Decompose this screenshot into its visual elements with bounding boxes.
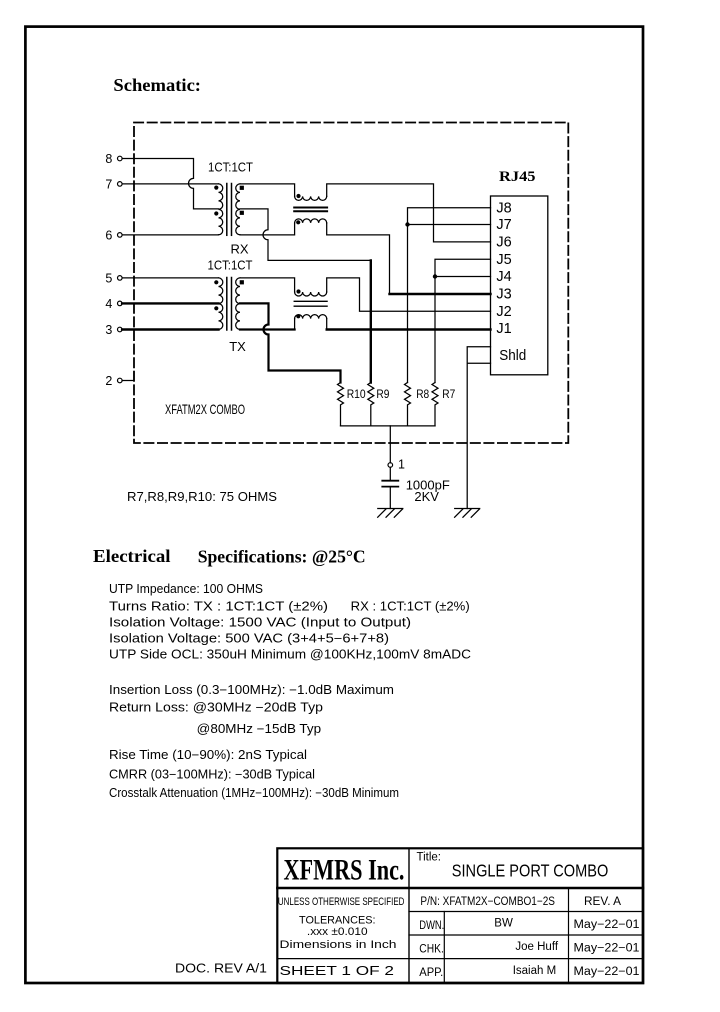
ground symbol (capacitor) (378, 509, 403, 518)
svg-text:@80MHz −15dB Typ: @80MHz −15dB Typ (197, 722, 321, 736)
wire J4 junction on R7 vertical (435, 276, 491, 278)
wire bus to node 1 (389, 426, 391, 463)
junction dot J4/R7 (433, 274, 437, 278)
svg-text:1CT:1CT: 1CT:1CT (208, 159, 253, 174)
wire TX secondary top to choke L2 (240, 278, 295, 292)
svg-text:Isolation Voltage: 500 VAC (3+: Isolation Voltage: 500 VAC (3+4+5−6+7+8) (109, 631, 389, 645)
svg-text:Turns Ratio: TX : 1CT:1CT (±2%: Turns Ratio: TX : 1CT:1CT (±2%) (109, 599, 328, 613)
RJ45 pin labels (496, 200, 526, 364)
svg-text:APP.: APP. (419, 967, 443, 979)
wire choke L1 top out to J6 (327, 184, 491, 242)
svg-text:7: 7 (105, 178, 112, 192)
svg-text:May−22−01: May−22−01 (574, 942, 640, 954)
transformer TX isolation: primary winding (219, 278, 223, 330)
resistor R10 (338, 383, 366, 426)
pin 6 (105, 229, 122, 243)
svg-text:Dimensions in Inch: Dimensions in Inch (280, 939, 397, 951)
transformer TX secondary winding (236, 278, 240, 330)
svg-text:Crosstalk Attenuation (1MHz−10: Crosstalk Attenuation (1MHz−100MHz): −30… (109, 786, 399, 800)
wire J5 to R7 vertical (435, 259, 491, 382)
transformer RX secondary winding (236, 184, 240, 235)
wire pin6 to RX primary bottom (122, 234, 218, 236)
wire TX secondary center tap to R10 (thick, hop over pin3 wire) (240, 303, 341, 382)
svg-text:DWN.: DWN. (419, 920, 444, 932)
common mode choke L2 (TX) top winding (295, 292, 327, 296)
wire J7 junction on R8 vertical (408, 224, 491, 226)
svg-text:Title:: Title: (417, 851, 442, 863)
wire capacitor to ground (389, 488, 391, 509)
svg-text:2: 2 (105, 374, 112, 388)
wire pin8 to RX primary center tap (with hop over pin7 wire) (122, 159, 218, 209)
svg-text:J7: J7 (496, 217, 511, 233)
choke L2 bottom winding (295, 315, 327, 319)
wire TX secondary bottom to choke L2 lower (thick) (240, 328, 295, 330)
wire pin3 to TX primary bottom (thick) (122, 328, 218, 330)
svg-text:TOLERANCES:: TOLERANCES: (299, 915, 376, 927)
svg-text:6: 6 (105, 229, 112, 243)
tolerance note block (278, 896, 405, 951)
wire R9 vertical (thick) (370, 260, 372, 382)
pin 7 (105, 178, 122, 192)
wire node 1 to capacitor C1 (389, 467, 391, 480)
svg-text:XFATM2X COMBO: XFATM2X COMBO (165, 401, 245, 417)
choke L1 core (294, 208, 327, 212)
svg-text:Specifications: @25°C: Specifications: @25°C (198, 546, 366, 566)
pin 5 (105, 271, 122, 285)
svg-text:UTP Side OCL: 350uH Minimum @1: UTP Side OCL: 350uH Minimum @100KHz,100m… (109, 647, 471, 661)
dashed module outline (134, 123, 568, 444)
svg-text:May−22−01: May−22−01 (574, 919, 640, 931)
svg-text:8: 8 (105, 152, 112, 166)
wire pin2 stub to module outline (122, 372, 134, 381)
pin 2 (105, 374, 122, 388)
wire RX secondary bottom to choke L1 lower (240, 223, 295, 235)
svg-text:REV. A: REV. A (584, 896, 621, 908)
wire choke L2 bottom out to J1 (thick) (326, 319, 328, 330)
svg-text:TX: TX (229, 339, 246, 354)
svg-text:4: 4 (105, 297, 112, 311)
RJ45 connector box (491, 196, 548, 375)
svg-text:J1: J1 (496, 321, 511, 337)
svg-text:Electrical: Electrical (93, 546, 171, 566)
wire RX secondary top to choke L1 (240, 184, 295, 197)
svg-text:Isolation Voltage: 1500 VAC (I: Isolation Voltage: 1500 VAC (Input to Ou… (109, 616, 411, 630)
resistor R8 (405, 383, 430, 426)
svg-text:3: 3 (105, 323, 112, 337)
svg-text:May−22−01: May−22−01 (574, 966, 640, 978)
node 1 terminal (388, 463, 393, 468)
svg-text:CHK.: CHK. (419, 943, 444, 955)
resistor R7 (432, 383, 455, 426)
svg-text:Isaiah M: Isaiah M (513, 965, 556, 977)
wire pin4 to TX primary center tap (thick) (122, 302, 218, 304)
choke L1 bottom winding (295, 219, 327, 223)
svg-text:J2: J2 (496, 304, 511, 320)
svg-text:R9: R9 (376, 389, 389, 401)
wire J8 to R8 vertical (408, 208, 491, 383)
pin 8 (105, 152, 122, 166)
svg-text:SHEET 1 OF 2: SHEET 1 OF 2 (280, 964, 395, 978)
wire pin5 to TX primary top (122, 277, 218, 279)
title block outer box (277, 848, 643, 983)
choke L2 polarity dots (296, 289, 300, 318)
svg-text:J4: J4 (496, 269, 511, 285)
svg-text:1: 1 (398, 457, 405, 471)
svg-text:Joe Huff: Joe Huff (515, 941, 558, 953)
wire RX secondary center tap to R9 (hop over bottom wire) (240, 209, 371, 261)
wire resistor bottom bus (341, 425, 436, 427)
svg-text:Rise Time (10−90%): 2nS Typica: Rise Time (10−90%): 2nS Typical (109, 748, 307, 762)
wire J3 horizontal (thick) (390, 293, 491, 295)
junction dot J7/R8 (405, 222, 409, 226)
pin 4 (105, 297, 122, 311)
svg-text:J3: J3 (496, 287, 511, 303)
svg-text:RX : 1CT:1CT (±2%): RX : 1CT:1CT (±2%) (351, 599, 470, 613)
capacitor C1 plates (382, 481, 398, 487)
svg-text:RJ45: RJ45 (499, 169, 536, 185)
wire choke L1 bottom out to J3 (thick at J3) (327, 223, 390, 293)
resistor R9 (368, 383, 390, 426)
svg-text:DOC. REV A/1: DOC. REV A/1 (175, 962, 267, 976)
pin 3 (105, 323, 122, 337)
wire Shld stubs to ground (467, 347, 490, 509)
transformer RX isolation: primary winding (219, 184, 223, 235)
svg-text:J8: J8 (496, 200, 511, 216)
svg-text:BW: BW (494, 918, 513, 930)
choke L1 polarity dots (296, 194, 301, 225)
svg-text:J5: J5 (496, 252, 511, 268)
choke L2 core (294, 301, 327, 306)
svg-text:5: 5 (105, 271, 112, 285)
svg-text:R8: R8 (416, 389, 429, 401)
svg-text:CMRR (03−100MHz): −30dB Typica: CMRR (03−100MHz): −30dB Typical (109, 768, 315, 782)
svg-text:R7: R7 (442, 389, 455, 401)
ground symbol (shield) (455, 509, 480, 518)
title block grid lines (277, 848, 643, 983)
svg-text:R10: R10 (347, 389, 366, 401)
svg-text:R7,R8,R9,R10: 75 OHMS: R7,R8,R9,R10: 75 OHMS (127, 490, 277, 504)
svg-text:2KV: 2KV (414, 489, 439, 504)
wire pin7 to RX primary top (122, 183, 218, 185)
TX polarity dots (214, 280, 244, 310)
svg-text:UTP Impedance: 100 OHMS: UTP Impedance: 100 OHMS (109, 582, 263, 596)
svg-text:XFMRS Inc.: XFMRS Inc. (284, 854, 405, 887)
transformer RX core (227, 184, 232, 236)
wire choke L2 top out to J2 (327, 278, 491, 311)
svg-text:RX: RX (231, 242, 249, 257)
svg-text:1CT:1CT: 1CT:1CT (208, 257, 253, 272)
svg-text:Insertion Loss (0.3−100MHz): −: Insertion Loss (0.3−100MHz): −1.0dB Maxi… (109, 683, 394, 697)
spec text lines (109, 582, 471, 800)
svg-text:SINGLE PORT COMBO: SINGLE PORT COMBO (452, 860, 609, 880)
svg-text:J6: J6 (496, 235, 511, 251)
transformer TX core (227, 278, 232, 331)
svg-text:.xxx ±0.010: .xxx ±0.010 (307, 926, 368, 938)
RX polarity dots (214, 186, 244, 216)
svg-text:Shld: Shld (499, 348, 526, 364)
common mode choke L1 (RX) top winding (295, 196, 327, 200)
svg-text:P/N: XFATM2X−COMBO1−2S: P/N: XFATM2X−COMBO1−2S (420, 896, 555, 908)
svg-text:UNLESS OTHERWISE SPECIFIED: UNLESS OTHERWISE SPECIFIED (278, 896, 405, 908)
svg-text:Schematic:: Schematic: (113, 75, 201, 95)
svg-text:Return Loss: @30MHz −20dB Typ: Return Loss: @30MHz −20dB Typ (109, 701, 323, 715)
